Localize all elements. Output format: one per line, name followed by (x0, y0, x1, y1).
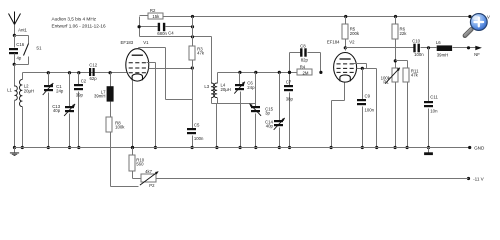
svg-text:100n: 100n (414, 52, 424, 57)
svg-text:P2: P2 (149, 183, 155, 188)
wire R3 column top (192, 17, 194, 47)
svg-text:Entwurf 1.06 - 2011-12-16: Entwurf 1.06 - 2011-12-16 (52, 24, 107, 29)
svg-text:40p: 40p (53, 108, 61, 113)
svg-text:40p: 40p (266, 124, 274, 129)
inductor L7 (110, 73, 112, 87)
svg-text:4p: 4p (17, 56, 22, 61)
svg-text:EF184: EF184 (327, 39, 340, 44)
svg-text:38p: 38p (286, 97, 294, 102)
svg-text:V2: V2 (349, 39, 355, 44)
wire anode supply horizontal (140, 36, 212, 38)
wire grid leak return (111, 186, 139, 188)
svg-text:Ant1: Ant1 (18, 28, 27, 33)
terminal +11V (468, 15, 471, 18)
svg-text:24p: 24p (247, 85, 255, 90)
svg-text:4k7: 4k7 (145, 169, 153, 174)
resistor R5 (344, 15, 347, 18)
svg-text:V1: V1 (143, 40, 149, 45)
wire V1 cathode (132, 81, 134, 148)
wire L6 to NF (453, 47, 476, 49)
wire coil bottoms (212, 103, 256, 105)
svg-text:22k: 22k (400, 31, 408, 36)
svg-text:3p: 3p (265, 111, 270, 116)
wire R6 to R11 (396, 60, 408, 62)
svg-text:100n: 100n (365, 107, 375, 112)
svg-text:C10: C10 (412, 39, 420, 44)
svg-text:680n: 680n (157, 31, 167, 36)
terminal GND (468, 146, 471, 149)
node C8 junctions (288, 71, 291, 74)
tube V1 EF183 (126, 49, 149, 81)
node C11 top (427, 46, 430, 49)
svg-text:EF183: EF183 (121, 40, 134, 45)
inductor L6 (437, 45, 452, 51)
wire antenna to S1 branch (15, 35, 29, 37)
svg-text:-11 V: -11 V (473, 176, 485, 181)
node C16/S1 junction (13, 63, 16, 66)
svg-text:47k: 47k (411, 73, 419, 78)
node R6 bottom (394, 59, 397, 62)
inductor L4 (217, 73, 219, 84)
svg-text:C2: C2 (81, 79, 87, 84)
wire V1 g2 to screen node (149, 68, 193, 70)
svg-text:C7: C7 (286, 80, 292, 85)
svg-text:39p: 39p (76, 92, 84, 97)
wire V2 anode (345, 48, 347, 51)
svg-text:100n: 100n (194, 136, 204, 141)
svg-text:10n: 10n (430, 108, 438, 113)
resistor R10 (131, 146, 134, 149)
node C4 left (138, 25, 141, 28)
svg-text:L3: L3 (204, 84, 209, 89)
ground symbol C11 (428, 148, 430, 153)
svg-text:100k: 100k (115, 125, 125, 130)
capacitor C1 (variable) (47, 71, 50, 74)
capacitor C6 (variable) (238, 71, 241, 74)
wire screen node vertical (192, 61, 194, 129)
svg-text:Audion 3,5 bis 4 MHz: Audion 3,5 bis 4 MHz (52, 17, 97, 22)
capacitor C12 (grid cap) (89, 68, 91, 76)
antenna Ant1 (9, 14, 15, 25)
svg-text:39mH: 39mH (94, 93, 105, 98)
node rail/R3 column (191, 15, 194, 18)
svg-text:R2: R2 (150, 8, 156, 13)
resistor R2 (140, 15, 149, 17)
capacitor C4 (140, 26, 158, 28)
capacitor C16 (14, 36, 16, 48)
switch S1 (28, 36, 30, 44)
svg-text:20µH: 20µH (221, 87, 231, 92)
inductor L1 (14, 65, 16, 87)
svg-text:15k: 15k (152, 14, 160, 19)
wire ground rail (15, 147, 470, 149)
capacitor C8 (289, 53, 291, 73)
svg-text:560: 560 (136, 161, 144, 166)
svg-text:R4: R4 (300, 65, 306, 70)
svg-text:2M: 2M (303, 71, 309, 76)
node V2 anode (344, 46, 347, 49)
svg-text:C16: C16 (16, 42, 24, 47)
resistor R8 (110, 102, 112, 118)
svg-text:62p: 62p (90, 76, 98, 81)
potentiometer P1 (392, 68, 398, 82)
wire V1 anode to shield route (138, 48, 140, 49)
wire V2 g2 line (357, 68, 377, 70)
svg-text:82p: 82p (301, 57, 309, 62)
capacitor C2 (77, 71, 80, 74)
capacitor C11 (428, 48, 430, 102)
svg-text:GND: GND (474, 146, 485, 151)
wire V2 g3 jog (354, 63, 367, 65)
resistor R3 (189, 46, 195, 60)
node antenna junction (13, 34, 16, 37)
wire anode feed vertical left (139, 17, 141, 37)
capacitor C7 (288, 71, 291, 74)
svg-text:47k: 47k (197, 51, 205, 56)
capacitor C10 (413, 44, 415, 53)
svg-text:C8: C8 (300, 44, 306, 49)
svg-text:C11: C11 (430, 94, 438, 99)
node grid junction L7 (109, 71, 112, 74)
capacitor C15 (variable) (254, 71, 257, 74)
svg-text:C12: C12 (89, 63, 97, 68)
inductor L2 (22, 73, 24, 80)
node NF (467, 46, 470, 49)
potentiometer P2 (141, 174, 156, 182)
svg-text:C4: C4 (168, 30, 174, 35)
wire V2 cathode (344, 83, 346, 101)
terminal NF arrow (475, 46, 482, 51)
wire top rail (164, 16, 470, 18)
resistor R6 (394, 15, 397, 18)
svg-text:C5: C5 (194, 123, 200, 128)
capacitor C5 (187, 128, 196, 130)
ground symbol antenna (13, 146, 16, 149)
svg-text:S1: S1 (36, 46, 42, 51)
resistor R4 (297, 69, 312, 75)
wire V1 g3 to ground (147, 62, 156, 64)
svg-text:L6: L6 (436, 40, 441, 45)
svg-text:NF: NF (474, 52, 480, 57)
svg-text:39mH: 39mH (437, 52, 448, 57)
resistor R11 (403, 68, 409, 82)
magnifier icon (465, 14, 487, 36)
wire anode line to C10 (346, 47, 414, 49)
svg-text:20µH: 20µH (24, 88, 34, 93)
wire R10 to P2 (133, 178, 142, 180)
svg-text:200k: 200k (350, 31, 360, 36)
svg-text:C9: C9 (365, 94, 371, 99)
inductor L3 (211, 37, 213, 84)
svg-text:L1: L1 (7, 88, 12, 93)
wire grid bus stage2 (218, 72, 298, 74)
wire grid bus stage1 (23, 72, 127, 74)
wire bottom rail (157, 178, 469, 180)
capacitor C9 (361, 67, 364, 70)
capacitor C13 (variable) (68, 71, 71, 74)
capacitor C14 (variable) (278, 71, 281, 74)
svg-text:P1: P1 (383, 80, 389, 85)
wire C10 to L6 (421, 47, 437, 49)
tube V2 EF184 (334, 53, 357, 83)
terminal -11V (467, 177, 470, 180)
svg-text:24p: 24p (56, 88, 64, 93)
